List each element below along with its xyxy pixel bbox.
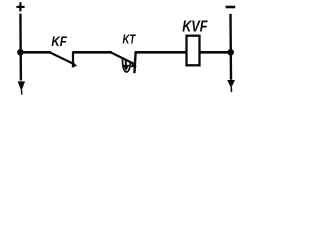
contact KF (normally-open contact blade) xyxy=(50,51,77,67)
time-delay symbol of KT (arrow into damping arc) xyxy=(122,59,130,72)
wire: rail segment from KT to coil KVF xyxy=(135,51,187,54)
node: right junction dot xyxy=(227,49,234,56)
contact KT (normally-open contact blade) xyxy=(111,51,137,73)
arrow: right continuation downward xyxy=(227,80,235,92)
wire: rail segment from coil KVF to right node xyxy=(200,51,231,54)
node: left junction dot xyxy=(17,49,24,56)
wire: rail segment from KF to contact KT xyxy=(73,51,112,54)
svg-text:KVF: KVF xyxy=(182,19,208,36)
relay coil KVF (rectangle) xyxy=(187,36,200,66)
arrow: left continuation downward xyxy=(18,81,25,94)
minus terminal (−) xyxy=(226,6,236,9)
wire: rail segment from left node to contact KF xyxy=(20,51,50,54)
wire: left vertical from + terminal down xyxy=(19,14,22,81)
plus terminal (+) xyxy=(16,2,24,11)
svg-text:KT: KT xyxy=(123,32,137,47)
wire: right vertical from − terminal down xyxy=(229,14,232,80)
svg-text:KF: KF xyxy=(51,34,67,50)
